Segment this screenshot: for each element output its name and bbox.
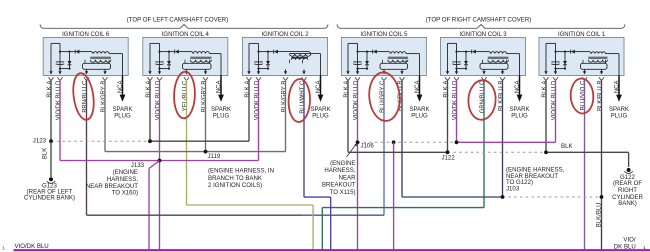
svg-text:IGNITION COIL 3: IGNITION COIL 3: [459, 32, 507, 38]
svg-text:VIO/DK BLU D: VIO/DK BLU D: [452, 80, 458, 120]
svg-text:J122: J122: [442, 154, 456, 161]
svg-text:BRN/BLU C: BRN/BLU C: [82, 80, 88, 113]
svg-text:GRN/BLU C: GRN/BLU C: [480, 80, 486, 113]
svg-text:BLK A: BLK A: [443, 81, 449, 98]
svg-text:IGNITION COIL 6: IGNITION COIL 6: [62, 32, 110, 38]
svg-text:BLK A: BLK A: [542, 81, 548, 98]
svg-text:BLK/BLU B: BLK/BLU B: [498, 81, 504, 111]
svg-text:(TOP OF LEFT CAMSHAFT COVER): (TOP OF LEFT CAMSHAFT COVER): [127, 17, 228, 24]
svg-text:VIO/DK BLU D: VIO/DK BLU D: [551, 80, 557, 120]
svg-text:BLU/WHT C: BLU/WHT C: [300, 80, 306, 114]
svg-text:BLK/GRY B: BLK/GRY B: [101, 81, 107, 113]
svg-text:BLK/BLU B: BLK/BLU B: [597, 81, 603, 111]
svg-text:VIO/DK BLU D: VIO/DK BLU D: [56, 80, 62, 120]
svg-text:NEAR: NEAR: [339, 174, 357, 181]
svg-text:2 IGNITION COILS): 2 IGNITION COILS): [208, 182, 262, 189]
svg-text:PLUG: PLUG: [114, 113, 131, 119]
svg-text:VIO/DK BLU: VIO/DK BLU: [15, 243, 49, 250]
svg-text:J106: J106: [361, 142, 375, 149]
svg-text:J123: J123: [33, 137, 47, 144]
svg-text:CYLINDER BANK): CYLINDER BANK): [24, 195, 75, 202]
svg-text:VIO/DK BLU D: VIO/DK BLU D: [254, 80, 260, 120]
svg-text:SPARK: SPARK: [509, 107, 529, 113]
svg-text:BLK: BLK: [43, 148, 49, 159]
svg-text:1: 1: [643, 245, 646, 250]
svg-text:BLK/BLU: BLK/BLU: [597, 203, 603, 228]
svg-text:PLUG: PLUG: [312, 113, 329, 119]
svg-text:SPARK: SPARK: [211, 107, 231, 113]
svg-text:TO X115): TO X115): [330, 189, 356, 196]
svg-text:SPARK: SPARK: [310, 107, 330, 113]
svg-text:1: 1: [2, 246, 5, 251]
svg-text:BANK): BANK): [618, 200, 637, 207]
svg-text:PLUG: PLUG: [611, 113, 628, 119]
svg-text:(TOP OF RIGHT CAMSHAFT COVER): (TOP OF RIGHT CAMSHAFT COVER): [426, 17, 532, 24]
svg-text:IGNITION COIL 5: IGNITION COIL 5: [360, 32, 408, 38]
svg-text:VIO/DK BLU D: VIO/DK BLU D: [353, 80, 359, 120]
svg-text:BREAKOUT: BREAKOUT: [322, 182, 356, 189]
svg-text:SPARK: SPARK: [409, 107, 429, 113]
svg-text:(ENGINE: (ENGINE: [330, 160, 355, 167]
svg-text:J103: J103: [506, 185, 520, 192]
svg-text:IGNITION COIL 4: IGNITION COIL 4: [162, 32, 210, 38]
svg-text:BLK/GRY B: BLK/GRY B: [281, 81, 287, 113]
svg-text:VIO/DK BLU D: VIO/DK BLU D: [155, 80, 161, 120]
svg-text:IGNITION COIL 1: IGNITION COIL 1: [558, 32, 606, 38]
svg-text:BLU/GRY C: BLU/GRY C: [380, 80, 386, 113]
svg-text:BLK A: BLK A: [47, 81, 53, 98]
svg-text:TO X160): TO X160): [112, 190, 138, 197]
svg-text:HARNESS,: HARNESS,: [324, 167, 355, 174]
svg-text:PLUG: PLUG: [411, 113, 428, 119]
svg-text:PLUG: PLUG: [511, 113, 528, 119]
svg-text:(ENGINE HARNESS, IN: (ENGINE HARNESS, IN: [208, 168, 274, 175]
svg-text:PLUG: PLUG: [213, 113, 230, 119]
svg-text:BLU/VIO C: BLU/VIO C: [580, 80, 586, 110]
svg-text:BLK A: BLK A: [245, 81, 251, 98]
svg-text:BLK: BLK: [561, 143, 573, 150]
svg-text:BRANCH TO BANK: BRANCH TO BANK: [208, 175, 262, 182]
svg-text:BLK A: BLK A: [344, 81, 350, 98]
svg-text:SPARK: SPARK: [609, 107, 629, 113]
svg-text:BLK/GRY B: BLK/GRY B: [201, 81, 207, 113]
svg-text:IGNITION COIL 2: IGNITION COIL 2: [261, 32, 309, 38]
svg-text:YEL/BLU C: YEL/BLU C: [182, 80, 188, 111]
svg-text:J119: J119: [208, 153, 221, 160]
svg-text:DK BLU: DK BLU: [614, 243, 636, 250]
svg-text:SPARK: SPARK: [112, 107, 132, 113]
svg-text:BLK A: BLK A: [146, 81, 152, 98]
